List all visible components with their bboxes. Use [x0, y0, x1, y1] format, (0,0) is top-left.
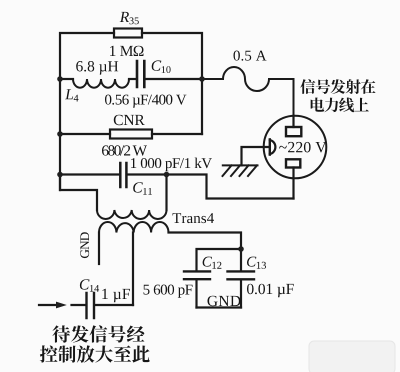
label 680/2 W	[102, 145, 147, 155]
label GND secondary (rotated)	[80, 232, 89, 258]
wire: L4 row left stub	[60, 78, 73, 80]
wire: secondary right lead over to filter block	[169, 233, 242, 250]
node: left bus / C11 row	[57, 172, 63, 178]
note: CJK annotation (signal sent on power line) line 1	[300, 79, 315, 94]
label R35	[120, 12, 139, 24]
wire: CNR row left segment	[60, 133, 110, 135]
note: CJK annotation (signal to be sent amplified to here) line 1	[52, 325, 70, 342]
transformer Trans4 secondary winding	[99, 222, 169, 233]
wire: left bus to transformer primary left lead	[60, 175, 97, 211]
label C14	[80, 279, 99, 292]
resistor CNR	[110, 130, 152, 139]
label GND filter	[208, 296, 241, 307]
inductor L4	[73, 79, 129, 88]
label C13	[247, 257, 266, 269]
outlet top slot	[286, 127, 301, 136]
label C11	[133, 182, 152, 195]
label CNR	[114, 115, 145, 126]
wire: C13 top lead	[240, 249, 242, 270]
node: C12/C13 junction	[238, 246, 244, 252]
wire: secondary left lead to GND	[98, 233, 100, 265]
label 5 600 pF	[144, 285, 193, 298]
label 1 Mohm	[110, 46, 144, 56]
outlet circle (~220 V socket)	[264, 116, 327, 179]
plug prong semicircle	[270, 140, 276, 154]
capacitor C14	[87, 293, 95, 318]
capacitor C11	[120, 163, 126, 187]
wire: input line before C14	[39, 304, 85, 306]
wire: primary right lead up to C11 row node	[165, 175, 167, 211]
wire: branch to C12	[197, 249, 242, 270]
wire: top wire right of R35, right vertical down to CNR row	[142, 33, 202, 134]
wire: C11 row right, corner down, bottom run to outlet lead	[128, 175, 294, 199]
scan artifact: light gray box bottom-right	[309, 341, 395, 372]
label 1 000 pF/1 kV	[131, 158, 212, 172]
wire: C14 to center tap corner	[95, 304, 133, 306]
label 0.01 uF	[247, 284, 294, 298]
fuse 0.5 A and drop to outlet	[202, 67, 294, 116]
outlet bottom slot	[286, 159, 300, 167]
label C12	[203, 257, 222, 269]
arrowhead: signal input	[56, 302, 67, 309]
node: left bus / CNR row	[57, 131, 63, 137]
label 0.56 uF/400 V	[105, 95, 187, 108]
label Trans4	[173, 213, 215, 223]
capacitor C13	[228, 271, 255, 279]
label 1 uF	[102, 289, 130, 303]
node: left bus / L4 row	[57, 76, 63, 82]
label ~220 V	[279, 142, 326, 153]
wire: C13 bottom lead	[240, 281, 242, 308]
note: CJK annotation line 2	[311, 98, 325, 112]
capacitor C10	[137, 61, 144, 87]
label 6.8 uH	[76, 61, 118, 75]
node: primary right lead / C11 row	[164, 172, 170, 178]
node: fuse branch	[199, 76, 205, 82]
wire: C11 row left segment	[60, 173, 119, 175]
label C10	[152, 60, 171, 73]
wire: secondary center tap down to C14 row	[132, 233, 134, 306]
wire: C12 bottom lead	[195, 280, 197, 307]
transformer Trans4 primary winding	[97, 210, 167, 219]
resistor R35	[114, 29, 142, 38]
wire: plug to earth ground	[242, 147, 270, 165]
capacitor C12	[184, 271, 210, 279]
plug prong bar	[269, 139, 271, 154]
note: CJK annotation line 2	[40, 345, 58, 362]
wire: C10 to right vertical	[146, 78, 202, 80]
wire: outlet bottom lead down to bottom run	[292, 168, 294, 199]
wire: ground return between C12 and C13	[197, 306, 242, 308]
label 0.5 A	[234, 51, 267, 61]
label L4	[65, 89, 79, 101]
wire: outlet top lead inside circle	[292, 116, 294, 127]
wire: inductor to C10	[129, 78, 136, 80]
wire: CNR row right segment	[152, 133, 202, 135]
wire: left bus from top-left corner down	[60, 33, 114, 190]
earth ground symbol	[223, 165, 258, 176]
